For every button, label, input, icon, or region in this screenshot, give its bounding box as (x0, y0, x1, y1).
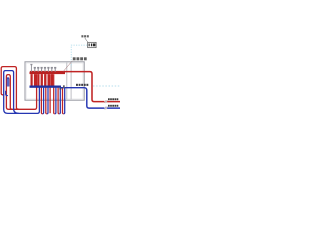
manifold label leader (63, 61, 72, 72)
blue return pipe: bar to right edge (60, 88, 120, 108)
floor coil outer red spiral (1, 67, 19, 110)
floor coil inner red spiral + supply run to manifold (6, 74, 36, 109)
thermostat label (tiny glyph mush) (81, 35, 88, 37)
thermostat box (88, 42, 96, 47)
red flow-meter drops between bars (31, 74, 54, 86)
return pipe label (tiny glyph mush) (108, 105, 118, 107)
dashed wire to right edge (93, 85, 120, 87)
thermostat leader line (85, 38, 88, 42)
manifold valves row (air vent first) (30, 64, 56, 72)
loop stub blue lines group B (56, 88, 65, 114)
pipe break marks on red pipe (105, 100, 108, 103)
supply pipe label (tiny glyph mush) (108, 98, 118, 100)
wire label (tiny glyph mush) (76, 84, 88, 86)
supply manifold bar (30, 72, 66, 75)
loop stub red lines group A (41, 74, 50, 113)
coil center blue stub (6, 91, 8, 96)
manifold label (tiny glyph mush) (73, 57, 87, 60)
drain fitting below return bar (59, 88, 61, 90)
loop stub U-turn joins (41, 113, 64, 114)
loop stub blue lines group A (44, 88, 48, 114)
floor coil blue return spiral + return run to manifold (4, 71, 40, 114)
cabinet rail lines (66, 63, 68, 100)
manifold cabinet box (25, 62, 84, 100)
return manifold bar (30, 86, 62, 88)
red supply pipe: bar to right edge (30, 72, 120, 102)
pipe break marks on blue pipe (105, 106, 108, 109)
coil center blue inner loop (7, 78, 9, 87)
loop stub red lines group B (54, 74, 63, 113)
thermostat dashed wire (71, 45, 87, 67)
